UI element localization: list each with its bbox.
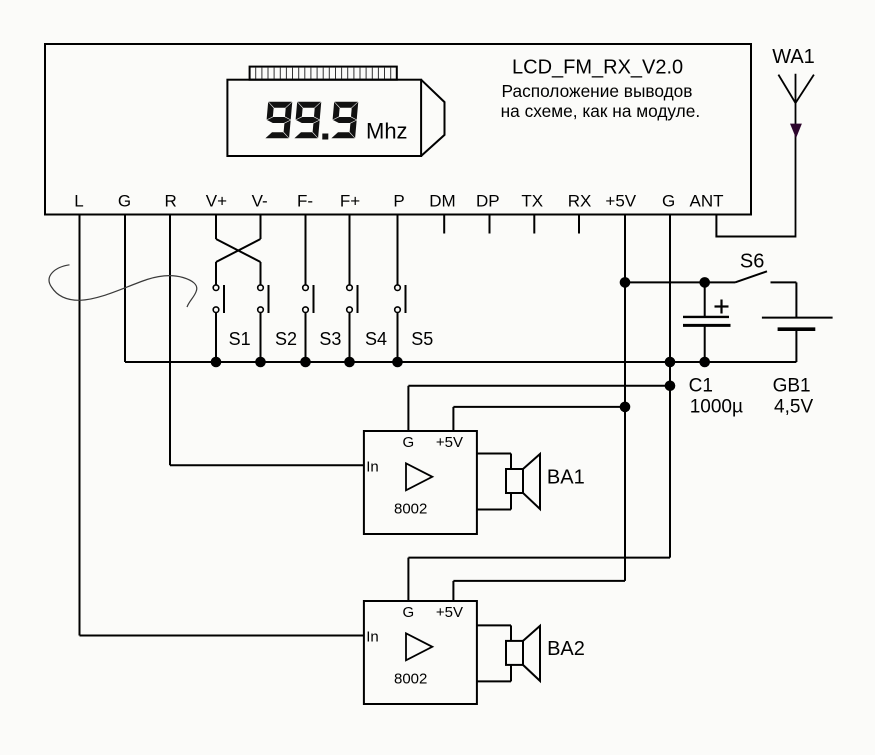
- junction switch S2 on ground bus: [255, 357, 266, 368]
- wire switch S4 to ground bus: [349, 313, 351, 362]
- wire +5V rail: [624, 215, 626, 581]
- wire A1 supply to +5V rail: [452, 407, 454, 431]
- antenna feed arrow: [790, 124, 802, 139]
- svg-text:8002: 8002: [394, 501, 427, 518]
- switch S1: [213, 285, 224, 313]
- pin stub TX: [533, 215, 535, 234]
- svg-text:V-: V-: [252, 192, 268, 211]
- wire V- with crossover: [260, 215, 262, 240]
- svg-text:P: P: [393, 192, 404, 211]
- wire R pin to amplifier A1 input: [169, 215, 171, 466]
- junction G rail / A1 ground: [665, 381, 676, 392]
- speaker BA1: [477, 454, 540, 510]
- svg-text:S5: S5: [411, 329, 433, 349]
- wire P pin to switch S5: [397, 215, 399, 285]
- wire S6 to battery +: [771, 281, 797, 283]
- LCD display body: [227, 80, 421, 156]
- junction +5V rail / S6 branch: [620, 277, 631, 288]
- svg-text:WA1: WA1: [772, 46, 815, 68]
- junction switch S1 on ground bus: [211, 357, 222, 368]
- svg-text:In: In: [366, 459, 379, 476]
- svg-text:Mhz: Mhz: [366, 119, 408, 144]
- pin stub DP: [489, 215, 491, 234]
- switch S3: [303, 285, 314, 313]
- capacitor C1: [683, 282, 731, 362]
- svg-text:ANT: ANT: [690, 192, 724, 211]
- svg-text:Расположение выводов: Расположение выводов: [502, 81, 693, 101]
- wire A1 ground to G rail: [407, 386, 409, 431]
- LCD decimal point: [322, 134, 328, 140]
- svg-text:DP: DP: [476, 192, 500, 211]
- amplifier module A1 (8002) box: [364, 431, 477, 534]
- svg-text:In: In: [366, 629, 379, 646]
- svg-text:GB1: GB1: [773, 375, 811, 396]
- wire +5V to switch S6: [625, 281, 735, 283]
- wire A2 ground to G rail: [407, 558, 409, 601]
- LCD digit 9 (first): [265, 102, 292, 139]
- svg-text:V+: V+: [206, 192, 227, 211]
- wire switch S5 to ground bus: [397, 313, 399, 362]
- amplifier module A2 (8002) box: [364, 601, 477, 704]
- wire switch S3 to ground bus: [305, 313, 307, 362]
- decorative squiggle over L wire: [49, 265, 197, 307]
- junction +5V rail / A1 supply: [620, 402, 631, 413]
- svg-text:LCD_FM_RX_V2.0: LCD_FM_RX_V2.0: [512, 57, 683, 79]
- svg-text:1000µ: 1000µ: [690, 396, 743, 417]
- battery GB1: [762, 318, 833, 362]
- FM receiver module box: [45, 44, 751, 215]
- speaker BA2: [477, 625, 540, 681]
- svg-text:F+: F+: [340, 192, 360, 211]
- junction G rail / ground bus: [665, 357, 676, 368]
- LCD digit 9 (second): [294, 102, 321, 139]
- svg-text:G: G: [118, 192, 131, 211]
- pin stub RX: [578, 215, 580, 234]
- wire ANT pin to antenna: [715, 215, 717, 238]
- svg-text:на схеме, как на модуле.: на схеме, как на модуле.: [501, 101, 701, 121]
- A1 amplifier triangle: [406, 463, 432, 490]
- wire L pin to amplifier A2 input: [79, 215, 81, 636]
- switch S2: [258, 285, 269, 313]
- wire F+ pin to switch S4: [349, 215, 351, 285]
- wire G pin to ground bus: [124, 215, 126, 363]
- C1 polarity plus sign: [715, 300, 729, 314]
- svg-text:+5V: +5V: [436, 604, 463, 621]
- svg-text:S1: S1: [229, 329, 251, 349]
- svg-text:4,5V: 4,5V: [774, 396, 813, 417]
- wire switch S2 to ground bus: [260, 313, 262, 362]
- ground bus wire: [125, 361, 796, 363]
- junction switch S4 on ground bus: [344, 357, 355, 368]
- svg-text:+5V: +5V: [605, 192, 636, 211]
- svg-text:RX: RX: [568, 192, 592, 211]
- A2 amplifier triangle: [406, 633, 432, 660]
- svg-text:BA2: BA2: [547, 638, 585, 660]
- wire A2 supply to +5V rail: [452, 581, 454, 601]
- switch S4: [347, 285, 358, 313]
- antenna WA1 symbol: [778, 74, 814, 238]
- switch S6 blade: [735, 271, 767, 282]
- svg-text:+5V: +5V: [436, 434, 463, 451]
- junction switch S3 on ground bus: [300, 357, 311, 368]
- svg-text:DM: DM: [429, 192, 455, 211]
- wire G (ground) rail: [669, 215, 671, 558]
- wire F- pin to switch S3: [305, 215, 307, 285]
- LCD display connector comb: [250, 67, 397, 80]
- LCD display right bevel: [421, 80, 444, 156]
- svg-text:L: L: [74, 192, 83, 211]
- svg-text:S6: S6: [740, 250, 764, 272]
- svg-text:G: G: [402, 604, 414, 621]
- wire V+ with crossover: [215, 215, 217, 240]
- svg-text:R: R: [165, 192, 177, 211]
- svg-text:8002: 8002: [394, 671, 427, 688]
- svg-text:BA1: BA1: [547, 466, 585, 488]
- svg-text:S2: S2: [275, 329, 297, 349]
- svg-text:C1: C1: [689, 375, 713, 396]
- svg-text:G: G: [402, 434, 414, 451]
- svg-text:S3: S3: [319, 329, 341, 349]
- junction switch S5 on ground bus: [392, 357, 403, 368]
- junction C1 top: [699, 277, 710, 288]
- junction C1 bottom on ground bus: [699, 357, 710, 368]
- svg-text:F-: F-: [297, 192, 313, 211]
- LCD digit 9 (third): [331, 102, 358, 139]
- svg-text:TX: TX: [521, 192, 543, 211]
- wire switch S1 to ground bus: [215, 313, 217, 362]
- svg-text:S4: S4: [365, 329, 387, 349]
- svg-text:G: G: [662, 192, 675, 211]
- pin stub DM: [443, 215, 445, 234]
- switch S5: [395, 285, 406, 313]
